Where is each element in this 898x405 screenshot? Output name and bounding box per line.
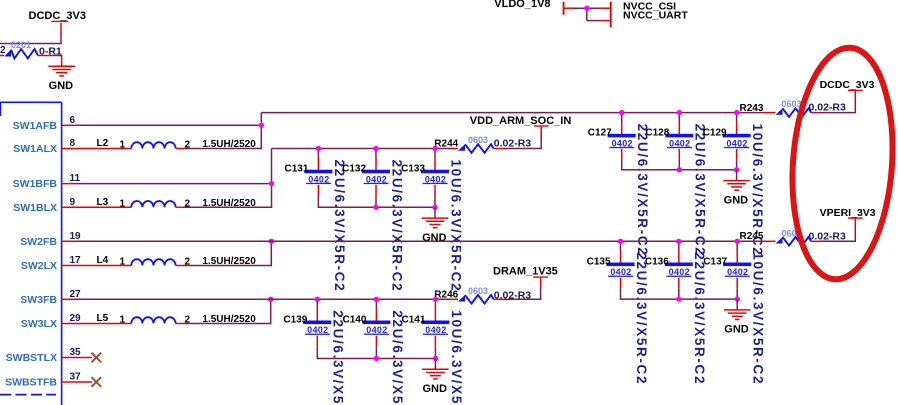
svg-text:22U/6.3V/X5R-C2: 22U/6.3V/X5R-C2 — [635, 124, 650, 257]
svg-text:SW2FB: SW2FB — [20, 236, 57, 248]
svg-text:R245: R245 — [740, 231, 764, 242]
svg-text:C129: C129 — [703, 128, 727, 139]
svg-text:C141: C141 — [401, 314, 425, 325]
svg-text:10U/6.3V/X5R-C2: 10U/6.3V/X5R-C2 — [449, 310, 464, 405]
svg-text:22U/6.3V/X5R-C2: 22U/6.3V/X5R-C2 — [634, 252, 649, 385]
svg-text:L5: L5 — [97, 313, 109, 324]
svg-text:22U/6.3V/X5R-C2: 22U/6.3V/X5R-C2 — [693, 124, 708, 257]
svg-text:C132: C132 — [342, 164, 366, 175]
svg-text:0603: 0603 — [468, 135, 488, 145]
svg-text:10U/6.3V/X5R-C2: 10U/6.3V/X5R-C2 — [448, 160, 463, 293]
svg-text:C128: C128 — [645, 128, 669, 139]
svg-text:SW1ALX: SW1ALX — [13, 143, 57, 155]
svg-text:GND: GND — [49, 80, 74, 92]
svg-text:8: 8 — [70, 138, 76, 149]
svg-text:SW3FB: SW3FB — [20, 294, 57, 306]
svg-text:C137: C137 — [703, 256, 727, 267]
svg-text:C136: C136 — [645, 256, 669, 267]
svg-text:0.02-R3: 0.02-R3 — [494, 138, 532, 150]
svg-text:SW1BFB: SW1BFB — [13, 178, 58, 190]
svg-text:0603: 0603 — [782, 99, 802, 109]
svg-text:C133: C133 — [401, 164, 425, 175]
svg-text:DRAM_1V35: DRAM_1V35 — [493, 265, 558, 277]
svg-text:DCDC_3V3: DCDC_3V3 — [29, 10, 86, 22]
svg-text:SWBSTLX: SWBSTLX — [6, 352, 57, 364]
svg-text:GND: GND — [724, 194, 749, 206]
svg-text:1: 1 — [120, 257, 126, 268]
svg-text:C135: C135 — [587, 256, 611, 267]
svg-text:C139: C139 — [283, 314, 307, 325]
svg-text:17: 17 — [70, 255, 82, 266]
svg-text:11: 11 — [70, 173, 81, 184]
svg-text:37: 37 — [70, 372, 82, 383]
svg-text:9: 9 — [70, 197, 76, 208]
svg-text:10U/6.3V/X5R-C2: 10U/6.3V/X5R-C2 — [751, 252, 766, 385]
svg-text:35: 35 — [70, 347, 82, 358]
svg-text:SW3LX: SW3LX — [21, 318, 57, 330]
svg-text:GND: GND — [724, 324, 749, 336]
svg-text:22U/6.3V/X5R-C2: 22U/6.3V/X5R-C2 — [332, 160, 347, 293]
svg-text:GND: GND — [422, 232, 447, 244]
svg-text:6: 6 — [70, 115, 76, 126]
svg-text:0.02-R3: 0.02-R3 — [809, 101, 847, 113]
svg-text:C140: C140 — [342, 314, 366, 325]
svg-text:C127: C127 — [588, 128, 612, 139]
svg-text:1: 1 — [120, 140, 126, 151]
svg-text:VPERI_3V3: VPERI_3V3 — [820, 207, 876, 219]
svg-text:DCDC_3V3: DCDC_3V3 — [820, 79, 875, 91]
svg-text:22U/6.3V/X5R-C2: 22U/6.3V/X5R-C2 — [389, 160, 404, 293]
svg-text:19: 19 — [70, 231, 82, 242]
svg-text:C131: C131 — [284, 164, 308, 175]
svg-text:R244: R244 — [434, 139, 458, 150]
svg-text:SW1AFB: SW1AFB — [13, 120, 58, 132]
svg-text:0603: 0603 — [468, 286, 488, 296]
svg-text:SW2LX: SW2LX — [21, 260, 57, 272]
svg-text:1: 1 — [120, 315, 126, 326]
svg-text:0201: 0201 — [11, 40, 31, 50]
svg-text:L2: L2 — [97, 138, 109, 149]
svg-text:29: 29 — [70, 313, 82, 324]
svg-text:VLDO_1V8: VLDO_1V8 — [494, 0, 550, 10]
svg-text:0.02-R3: 0.02-R3 — [494, 290, 532, 302]
svg-text:27: 27 — [70, 289, 82, 300]
svg-text:NVCC_UART: NVCC_UART — [623, 10, 688, 22]
svg-text:SW1BLX: SW1BLX — [13, 202, 57, 214]
svg-text:VDD_ARM_SOC_IN: VDD_ARM_SOC_IN — [470, 115, 572, 127]
svg-text:R243: R243 — [740, 103, 764, 114]
svg-text:22U/6.3V/X5R-C2: 22U/6.3V/X5R-C2 — [692, 252, 707, 385]
svg-text:GND: GND — [422, 383, 447, 395]
svg-text:2: 2 — [0, 45, 6, 56]
svg-text:SWBSTFB: SWBSTFB — [5, 377, 57, 389]
svg-text:0.02-R3: 0.02-R3 — [809, 231, 847, 243]
svg-text:L3: L3 — [97, 197, 109, 208]
svg-text:1: 1 — [120, 198, 126, 209]
svg-text:L4: L4 — [97, 255, 109, 266]
svg-text:0-R1: 0-R1 — [39, 46, 62, 58]
